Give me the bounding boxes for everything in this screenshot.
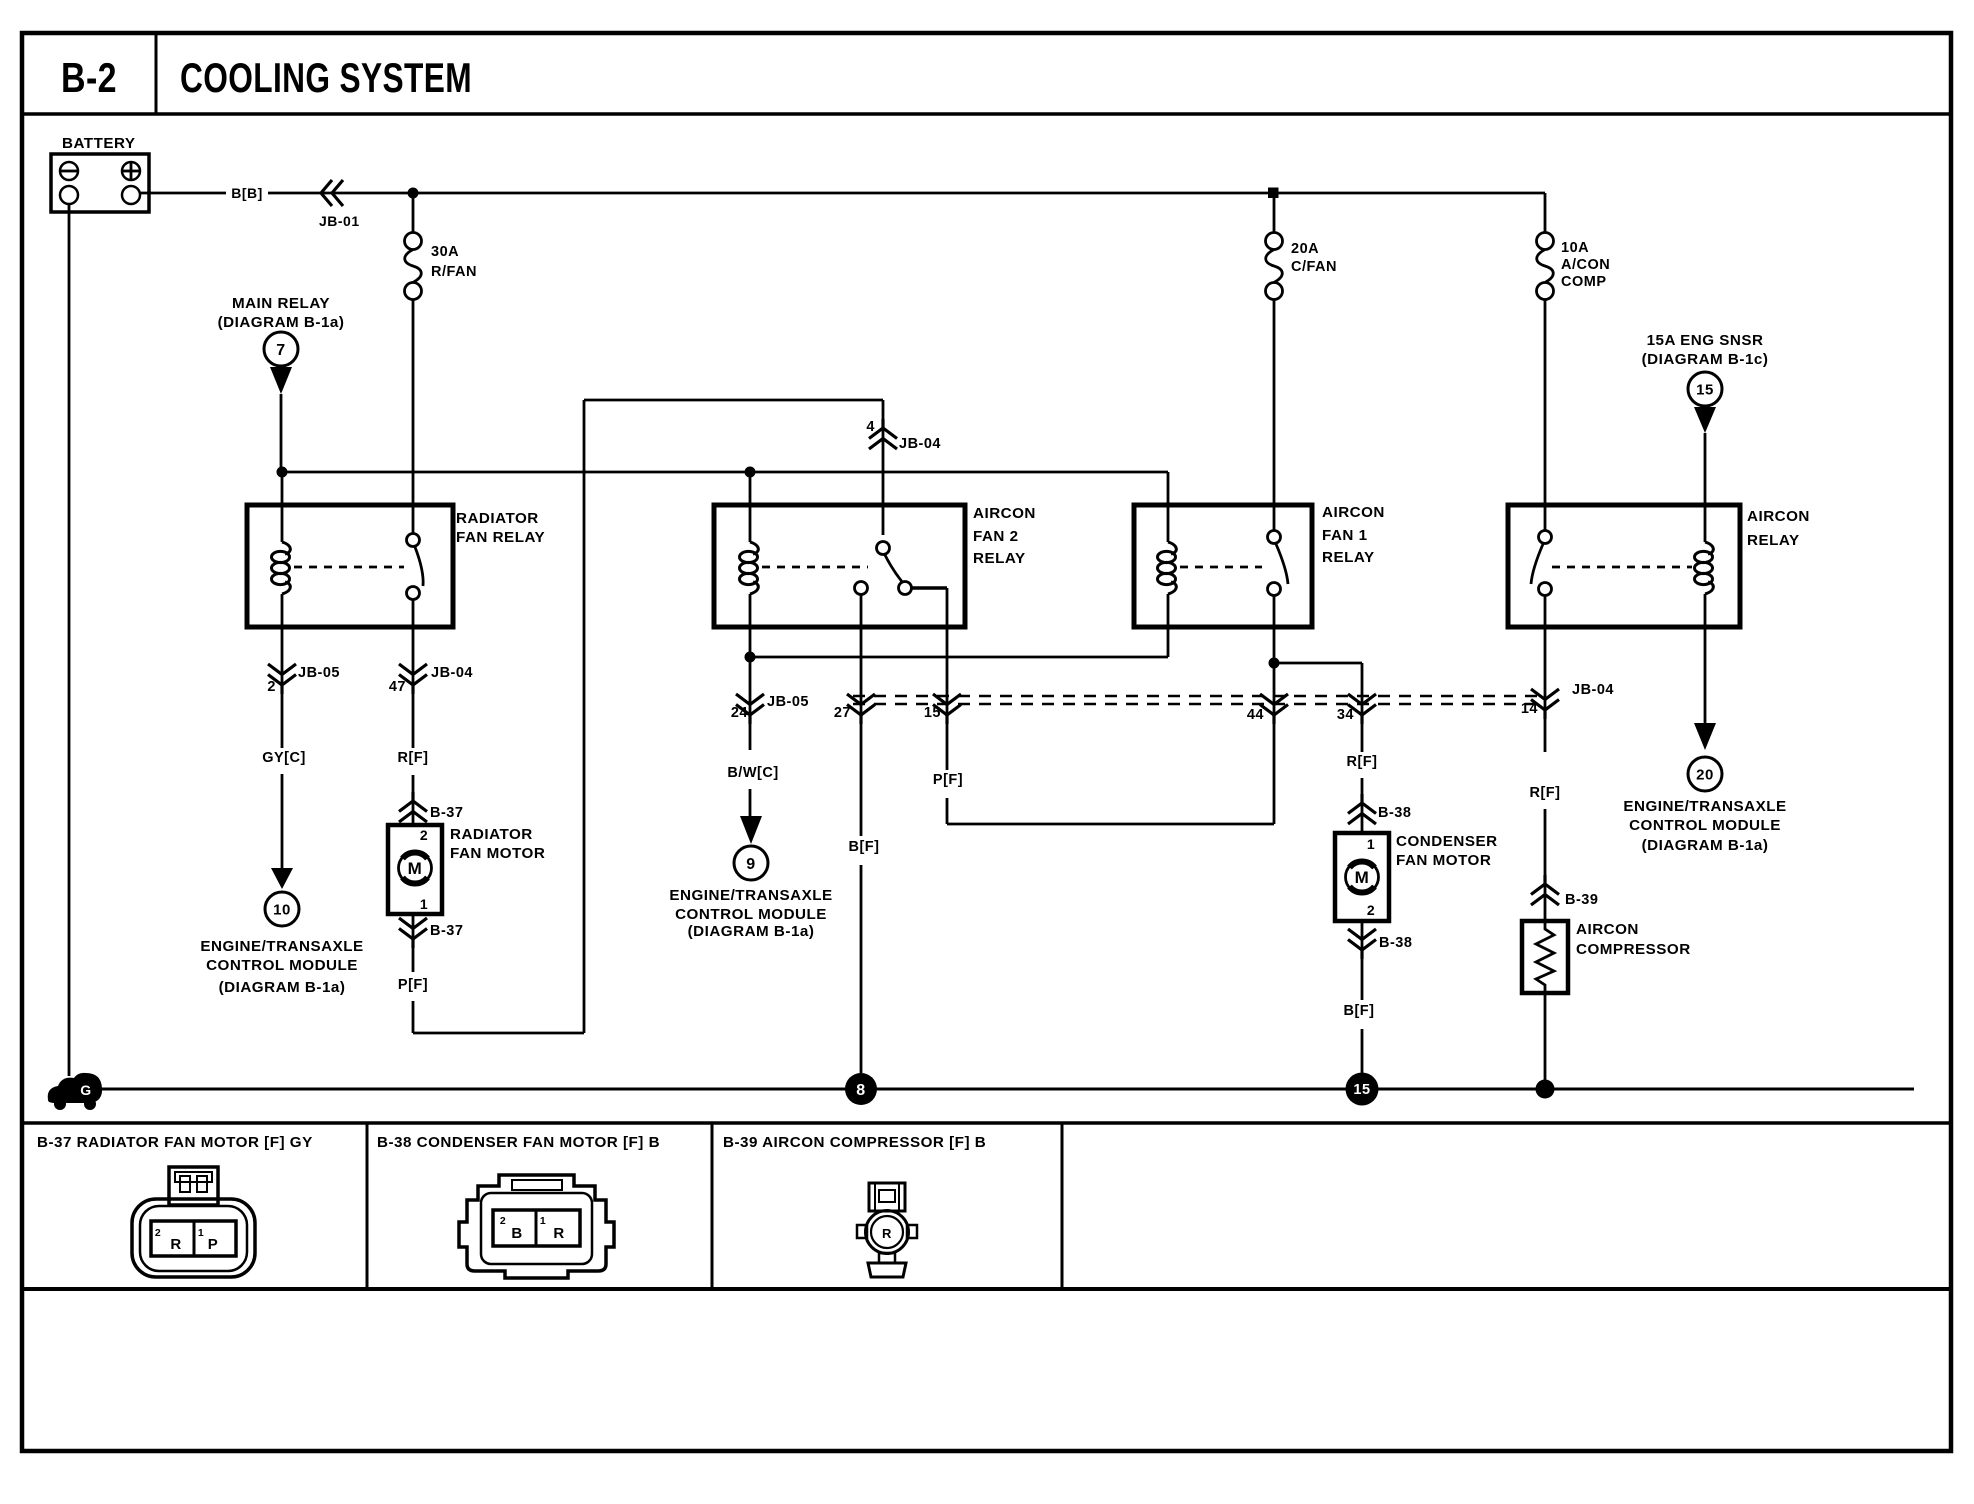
svg-text:R: R xyxy=(170,1236,181,1253)
svg-text:B-2: B-2 xyxy=(61,54,117,101)
svg-text:JB-04: JB-04 xyxy=(431,665,473,681)
svg-text:10: 10 xyxy=(273,901,291,918)
svg-text:10A: 10A xyxy=(1561,240,1589,256)
svg-text:R/FAN: R/FAN xyxy=(431,264,477,280)
svg-text:(DIAGRAM B-1a): (DIAGRAM B-1a) xyxy=(218,314,345,331)
svg-text:JB-05: JB-05 xyxy=(767,694,809,710)
svg-text:CONTROL MODULE: CONTROL MODULE xyxy=(206,957,358,974)
svg-text:MAIN RELAY: MAIN RELAY xyxy=(232,295,330,312)
svg-text:(DIAGRAM B-1a): (DIAGRAM B-1a) xyxy=(1642,837,1769,854)
svg-text:FAN RELAY: FAN RELAY xyxy=(456,529,545,546)
svg-text:COMPRESSOR: COMPRESSOR xyxy=(1576,941,1691,958)
svg-text:JB-04: JB-04 xyxy=(1572,682,1614,698)
svg-text:15: 15 xyxy=(1696,381,1714,398)
svg-text:1: 1 xyxy=(1367,836,1375,852)
svg-text:BATTERY: BATTERY xyxy=(62,135,136,152)
svg-text:4: 4 xyxy=(866,419,875,435)
svg-text:JB-01: JB-01 xyxy=(319,213,360,229)
svg-text:A/CON: A/CON xyxy=(1561,257,1610,273)
svg-text:9: 9 xyxy=(746,856,755,873)
svg-text:R: R xyxy=(553,1225,564,1242)
svg-text:34: 34 xyxy=(1337,707,1354,723)
svg-text:B-38: B-38 xyxy=(1379,935,1412,951)
svg-text:RADIATOR: RADIATOR xyxy=(450,826,533,843)
svg-text:ENGINE/TRANSAXLE: ENGINE/TRANSAXLE xyxy=(669,887,832,904)
svg-text:COOLING SYSTEM: COOLING SYSTEM xyxy=(180,54,472,101)
svg-text:2: 2 xyxy=(500,1215,506,1227)
svg-text:8: 8 xyxy=(856,1082,865,1099)
svg-text:2: 2 xyxy=(267,679,276,695)
svg-text:15A ENG SNSR: 15A ENG SNSR xyxy=(1647,332,1764,349)
svg-text:B-38 CONDENSER FAN MOTOR [F] B: B-38 CONDENSER FAN MOTOR [F] B xyxy=(377,1134,660,1151)
svg-text:20: 20 xyxy=(1696,766,1714,783)
svg-text:1: 1 xyxy=(420,896,428,912)
svg-text:B: B xyxy=(511,1225,522,1242)
svg-text:P: P xyxy=(208,1236,219,1253)
svg-text:ENGINE/TRANSAXLE: ENGINE/TRANSAXLE xyxy=(1623,798,1786,815)
svg-text:G: G xyxy=(80,1082,91,1098)
svg-text:AIRCON: AIRCON xyxy=(1576,921,1639,938)
svg-text:B[F]: B[F] xyxy=(849,839,880,855)
svg-text:B/W[C]: B/W[C] xyxy=(727,765,778,781)
svg-text:B[F]: B[F] xyxy=(1344,1003,1375,1019)
svg-text:RELAY: RELAY xyxy=(1747,532,1800,549)
svg-text:R[F]: R[F] xyxy=(398,750,429,766)
svg-text:FAN MOTOR: FAN MOTOR xyxy=(1396,852,1491,869)
svg-text:(DIAGRAM B-1a): (DIAGRAM B-1a) xyxy=(219,979,346,996)
svg-text:B-37: B-37 xyxy=(430,923,463,939)
svg-text:CONTROL MODULE: CONTROL MODULE xyxy=(1629,817,1781,834)
svg-text:44: 44 xyxy=(1247,707,1264,723)
svg-text:CONDENSER: CONDENSER xyxy=(1396,833,1498,850)
svg-text:R: R xyxy=(882,1226,892,1241)
svg-text:FAN 2: FAN 2 xyxy=(973,528,1019,545)
svg-text:B-39 AIRCON COMPRESSOR [F] B: B-39 AIRCON COMPRESSOR [F] B xyxy=(723,1134,986,1151)
svg-text:(DIAGRAM B-1c): (DIAGRAM B-1c) xyxy=(1642,351,1769,368)
svg-text:RELAY: RELAY xyxy=(973,550,1026,567)
svg-text:P[F]: P[F] xyxy=(933,772,963,788)
svg-text:14: 14 xyxy=(1521,701,1538,717)
svg-text:2: 2 xyxy=(1367,902,1375,918)
svg-text:27: 27 xyxy=(834,705,851,721)
svg-text:15: 15 xyxy=(924,705,941,721)
svg-text:GY[C]: GY[C] xyxy=(262,750,306,766)
svg-text:2: 2 xyxy=(155,1227,161,1239)
svg-text:R[F]: R[F] xyxy=(1530,785,1561,801)
svg-text:M: M xyxy=(408,859,423,878)
svg-text:7: 7 xyxy=(276,342,285,359)
svg-text:47: 47 xyxy=(389,679,406,695)
svg-text:AIRCON: AIRCON xyxy=(973,505,1036,522)
svg-text:RELAY: RELAY xyxy=(1322,549,1375,566)
svg-text:AIRCON: AIRCON xyxy=(1322,504,1385,521)
svg-text:RADIATOR: RADIATOR xyxy=(456,510,539,527)
svg-text:R[F]: R[F] xyxy=(1347,754,1378,770)
svg-text:FAN MOTOR: FAN MOTOR xyxy=(450,845,545,862)
svg-text:30A: 30A xyxy=(431,244,459,260)
svg-text:24: 24 xyxy=(731,705,748,721)
svg-text:B-37 RADIATOR FAN MOTOR [F] GY: B-37 RADIATOR FAN MOTOR [F] GY xyxy=(37,1134,313,1151)
svg-text:1: 1 xyxy=(540,1215,546,1227)
svg-text:(DIAGRAM B-1a): (DIAGRAM B-1a) xyxy=(688,923,815,940)
svg-text:AIRCON: AIRCON xyxy=(1747,508,1810,525)
svg-text:C/FAN: C/FAN xyxy=(1291,259,1337,275)
svg-text:COMP: COMP xyxy=(1561,274,1607,290)
svg-text:B-37: B-37 xyxy=(430,805,463,821)
svg-text:B[B]: B[B] xyxy=(231,185,263,201)
svg-text:2: 2 xyxy=(420,827,428,843)
svg-text:CONTROL MODULE: CONTROL MODULE xyxy=(675,906,827,923)
svg-text:FAN 1: FAN 1 xyxy=(1322,527,1368,544)
svg-text:P[F]: P[F] xyxy=(398,977,428,993)
svg-text:20A: 20A xyxy=(1291,241,1319,257)
svg-text:15: 15 xyxy=(1353,1082,1370,1098)
svg-text:M: M xyxy=(1355,868,1370,887)
svg-text:JB-04: JB-04 xyxy=(899,436,941,452)
svg-text:B-39: B-39 xyxy=(1565,892,1598,908)
svg-text:JB-05: JB-05 xyxy=(298,665,340,681)
svg-text:ENGINE/TRANSAXLE: ENGINE/TRANSAXLE xyxy=(200,938,363,955)
svg-text:1: 1 xyxy=(198,1227,204,1239)
svg-text:B-38: B-38 xyxy=(1378,805,1411,821)
